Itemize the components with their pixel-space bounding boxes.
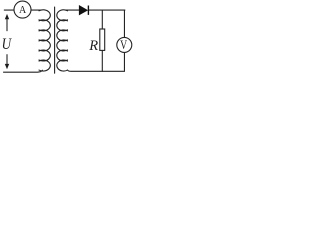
- wire top-left from source to ammeter: [4, 9, 14, 11]
- resistor R body: [100, 29, 105, 50]
- transformer secondary winding loop 1: [57, 10, 68, 21]
- transformer primary winding loop 6: [39, 60, 50, 71]
- wire resistor bottom lead: [101, 50, 103, 71]
- transformer secondary winding loop 5: [57, 50, 68, 61]
- transformer secondary winding loop 2: [57, 20, 68, 31]
- transformer primary winding loop 2: [39, 20, 50, 31]
- transformer primary winding loop 3: [39, 30, 50, 41]
- svg-text:A: A: [19, 5, 27, 16]
- up arrow shaft (input voltage): [6, 18, 8, 30]
- diode D1 cathode bar: [87, 6, 89, 15]
- wire resistor top lead: [101, 10, 103, 29]
- wire bottom-right horizontal: [68, 70, 125, 71]
- wire ammeter to primary coil: [31, 9, 41, 11]
- transformer primary winding loop 1: [39, 10, 50, 21]
- transformer secondary winding loop 3: [57, 30, 68, 41]
- transformer primary winding loop 5: [39, 50, 50, 61]
- transformer secondary winding loop 6: [57, 60, 68, 71]
- ammeter A1 circle: [14, 1, 31, 18]
- wire right rail top (corner to voltmeter): [123, 10, 125, 37]
- svg-text:V: V: [120, 38, 127, 52]
- wire secondary coil to diode: [66, 9, 80, 11]
- up arrowhead: [5, 14, 9, 19]
- voltmeter V1 circle: [117, 37, 132, 52]
- wire bottom-left from source to primary coil: [4, 70, 43, 72]
- transformer secondary winding loop 4: [57, 40, 68, 51]
- down arrow shaft (input voltage): [6, 55, 8, 65]
- wire diode to top-right corner: [88, 9, 125, 11]
- transformer core: [54, 7, 56, 73]
- down arrowhead: [5, 64, 9, 69]
- svg-text:U: U: [2, 36, 13, 53]
- diode D1 triangle: [79, 6, 87, 15]
- wire voltmeter bottom lead: [123, 52, 125, 71]
- transformer primary winding loop 4: [39, 40, 50, 51]
- svg-text:R: R: [88, 38, 98, 54]
